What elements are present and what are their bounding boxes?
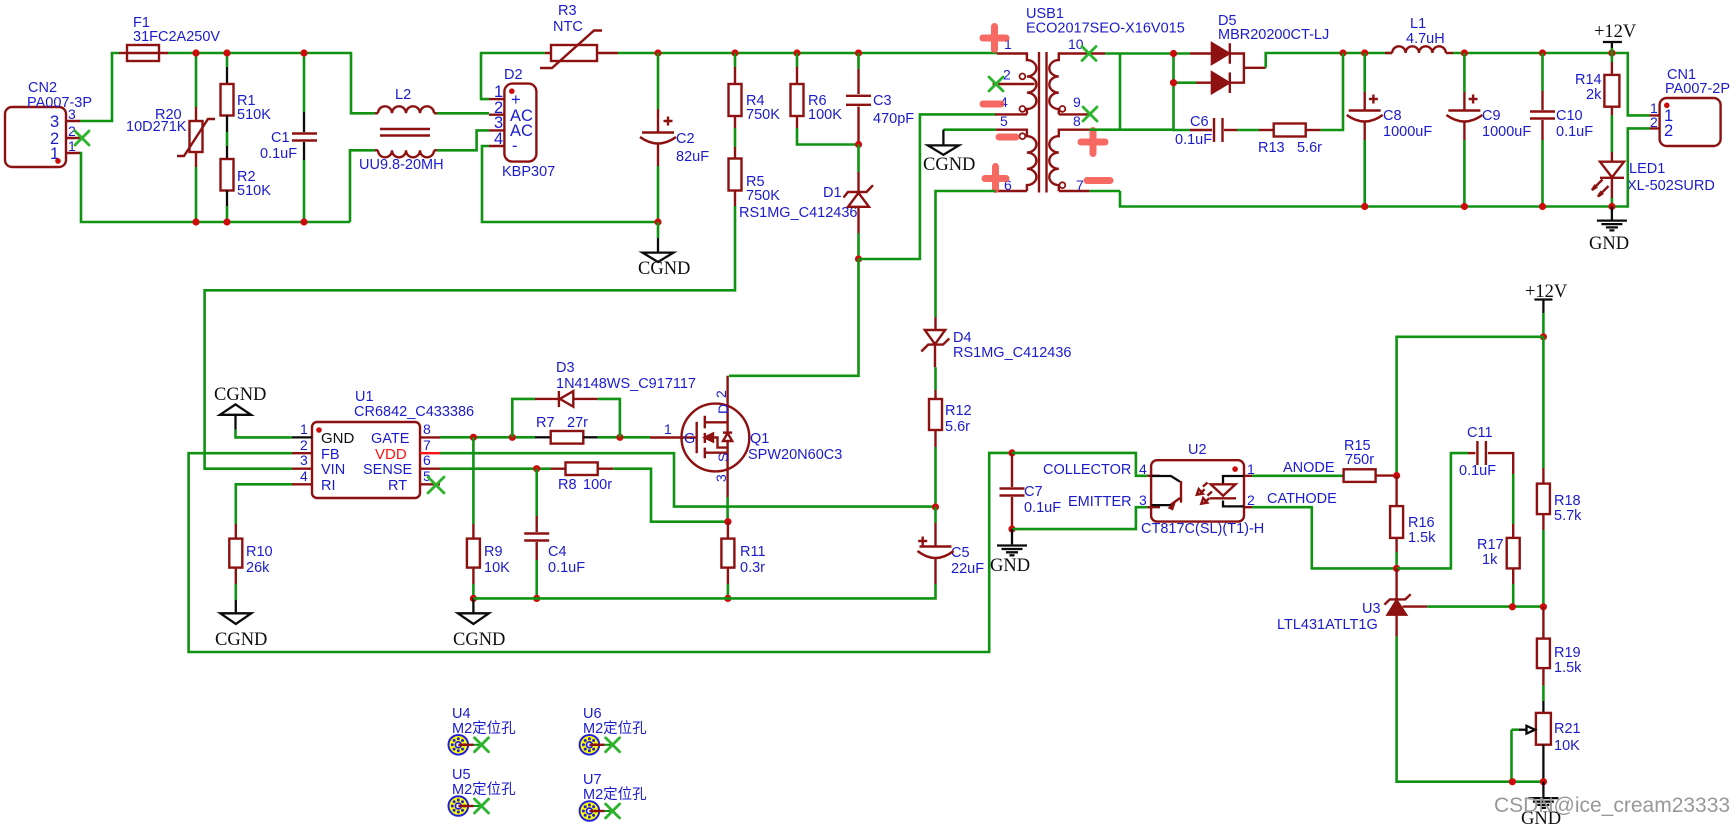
svg-text:COLLECTOR: COLLECTOR — [1043, 462, 1131, 478]
svg-text:9: 9 — [1073, 94, 1081, 110]
svg-text:750K: 750K — [746, 107, 780, 123]
svg-text:C11: C11 — [1467, 425, 1493, 441]
wire D5 out to +12V rail — [1266, 53, 1393, 68]
resistor R6 — [791, 53, 843, 128]
svg-text:7: 7 — [423, 437, 431, 453]
resistor R7 — [535, 415, 598, 444]
wire L2 to D2 pin3 — [437, 130, 489, 150]
common mode choke L2 — [359, 87, 444, 173]
resistor R17 — [1477, 524, 1520, 607]
svg-text:10D271K: 10D271K — [126, 119, 187, 135]
svg-text:0.1uF: 0.1uF — [1459, 463, 1496, 479]
capacitor C10 — [1530, 53, 1593, 207]
svg-text:R10: R10 — [246, 544, 273, 560]
svg-text:CGND: CGND — [453, 630, 505, 650]
junction (727.9,521.7) — [724, 518, 731, 525]
svg-text:1: 1 — [300, 421, 308, 437]
svg-text:C8: C8 — [1383, 108, 1402, 124]
junction (658,53) — [654, 49, 661, 56]
junction (319,430) — [316, 427, 322, 433]
light arrows — [1197, 483, 1212, 504]
output GND rail — [1120, 128, 1650, 206]
svg-text:3: 3 — [713, 474, 729, 482]
svg-text:C1: C1 — [271, 130, 290, 146]
svg-text:31FC2A250V: 31FC2A250V — [133, 29, 220, 45]
svg-text:ANODE: ANODE — [1283, 460, 1335, 476]
svg-text:4: 4 — [300, 468, 308, 484]
junction (797,53) — [793, 49, 800, 56]
svg-text:RT: RT — [388, 478, 407, 494]
mounting hole U6 — [580, 706, 648, 755]
junction (1364.7,206.5) — [1361, 203, 1368, 210]
junction (1396.6,475.6) — [1393, 472, 1400, 479]
svg-text:100K: 100K — [808, 107, 842, 123]
secondary winding pins 8-7 — [1049, 130, 1089, 191]
svg-text:L2: L2 — [395, 87, 411, 103]
svg-text:R12: R12 — [945, 403, 972, 419]
wire VDD row — [440, 453, 936, 506]
svg-text:R8: R8 — [558, 477, 577, 493]
svg-text:10K: 10K — [1554, 738, 1580, 754]
ground GND (regulator) — [1521, 782, 1561, 829]
svg-text:3: 3 — [68, 106, 76, 122]
polarity annotation - pin4 — [983, 101, 1001, 108]
junction (1512.4,781.7) — [1509, 778, 1516, 785]
svg-text:0.1uF: 0.1uF — [1556, 124, 1593, 140]
phase dots — [1020, 74, 1026, 80]
wire D1 junction down to Q1 drain — [729, 259, 859, 376]
lower primary winding pins 5-6 — [996, 130, 1037, 191]
wire CN2 pin1 to bottom rail — [80, 153, 350, 222]
junction (727.9,598.4) — [724, 595, 731, 602]
wire R16 node to C11 — [1397, 453, 1468, 568]
capacitor C7 — [1000, 449, 1062, 532]
svg-text:ECO2017SEO-X16V015: ECO2017SEO-X16V015 — [1026, 21, 1185, 37]
svg-text:CN2: CN2 — [28, 80, 57, 96]
svg-text:R13: R13 — [1258, 140, 1285, 156]
svg-text:RS1MG_C412436: RS1MG_C412436 — [953, 345, 1072, 361]
resistor R18 — [1537, 337, 1582, 607]
svg-text:R14: R14 — [1575, 72, 1602, 88]
svg-text:U7: U7 — [583, 772, 602, 788]
mounting hole U5 — [449, 767, 517, 816]
junction (658,222) — [654, 218, 661, 225]
wire pin5 to CGND — [943, 128, 995, 131]
svg-text:10K: 10K — [484, 560, 510, 576]
wire CN2 pin3 to F1 — [80, 53, 119, 121]
wire F1 to rail / L2 — [168, 53, 375, 113]
svg-text:XL-502SURD: XL-502SURD — [1627, 178, 1715, 194]
svg-text:C2: C2 — [676, 131, 695, 147]
svg-text:U4: U4 — [452, 706, 471, 722]
svg-text:0.3r: 0.3r — [740, 560, 765, 576]
svg-text:4.7uH: 4.7uH — [1406, 31, 1445, 47]
svg-text:R21: R21 — [1554, 721, 1581, 737]
secondary winding pins 10-9 — [1049, 54, 1105, 115]
svg-text:27r: 27r — [567, 415, 588, 431]
svg-text:5.6r: 5.6r — [1297, 140, 1322, 156]
capacitor C6 — [1175, 114, 1237, 148]
svg-text:R7: R7 — [536, 415, 555, 431]
diode D3 — [512, 360, 696, 437]
svg-text:M2定位孔: M2定位孔 — [583, 786, 647, 803]
junction (227,53) — [223, 49, 230, 56]
no-connect X on CN2 pin2 — [75, 131, 89, 145]
wire C7 to U2 collector — [1012, 453, 1147, 476]
wire C7 to U2 emitter — [1012, 507, 1147, 529]
wire R6 to C3/D1 junction — [797, 128, 859, 145]
mounting hole U4 — [449, 706, 517, 755]
junction (1235.1,469.1) — [1232, 466, 1238, 472]
svg-text:26k: 26k — [246, 560, 270, 576]
svg-text:1k: 1k — [1482, 552, 1498, 568]
svg-text:FB: FB — [321, 447, 340, 463]
svg-text:6: 6 — [423, 452, 431, 468]
diode D4 (zener) — [921, 317, 1071, 390]
svg-text:R19: R19 — [1554, 645, 1581, 661]
svg-text:L1: L1 — [1410, 16, 1426, 32]
wire GATE row — [440, 436, 650, 439]
wire CGND mid rail — [473, 584, 935, 598]
svg-text:4: 4 — [494, 130, 503, 148]
potentiometer R21 — [1512, 701, 1581, 782]
no-connect X U1 pin5 — [428, 477, 444, 493]
junction (58,161) — [55, 158, 61, 164]
junction (935.5,507) — [932, 503, 939, 510]
svg-text:3: 3 — [1139, 492, 1147, 508]
svg-text:NTC: NTC — [553, 19, 583, 35]
svg-text:D: D — [715, 404, 731, 414]
polarity annotation + pin6 — [985, 167, 1006, 190]
junction (227,222) — [223, 218, 230, 225]
svg-text:3: 3 — [300, 452, 308, 468]
svg-text:2: 2 — [1003, 67, 1011, 83]
junction (1173.5,82.7) — [1170, 79, 1177, 86]
mounting hole U7 — [580, 772, 648, 821]
svg-text:D3: D3 — [556, 360, 575, 376]
polarity annotation + pin8 — [1081, 131, 1105, 154]
svg-text:CATHODE: CATHODE — [1267, 491, 1337, 507]
svg-text:2: 2 — [1247, 492, 1255, 508]
svg-text:LTL431ATLT1G: LTL431ATLT1G — [1277, 617, 1378, 633]
svg-text:R11: R11 — [740, 544, 766, 560]
ground CGND (C2) — [638, 222, 690, 279]
junction (1611.9,53) — [1608, 49, 1615, 56]
ground CGND (U1 pin1, flipped) — [214, 385, 292, 437]
svg-text:R16: R16 — [1408, 515, 1435, 531]
svg-text:C7: C7 — [1024, 484, 1043, 500]
svg-text:1: 1 — [664, 421, 672, 437]
varistor R20 — [126, 53, 215, 222]
junction (1396.6,568.4) — [1393, 565, 1400, 572]
svg-text:0.1uF: 0.1uF — [548, 560, 585, 576]
junction (1666.8,105.3) — [1664, 103, 1670, 109]
svg-text:KBP307: KBP307 — [502, 164, 555, 180]
svg-text:5.6r: 5.6r — [945, 419, 970, 435]
svg-text:8: 8 — [1073, 113, 1081, 129]
wire C6/R13 row — [1174, 53, 1344, 130]
wire L2 to D2 pin2 — [437, 112, 489, 115]
svg-text:PA007-2P: PA007-2P — [1665, 81, 1730, 97]
svg-text:0.1uF: 0.1uF — [1024, 500, 1061, 516]
capacitor C1 — [260, 53, 317, 222]
svg-text:C5: C5 — [951, 545, 970, 561]
svg-text:U3: U3 — [1362, 601, 1381, 617]
junction (858.5,259) — [855, 255, 862, 262]
resistor R2 — [221, 146, 272, 222]
junction (304,222) — [300, 218, 307, 225]
shunt reference U3 TL431 — [1277, 568, 1543, 781]
svg-text:U6: U6 — [583, 706, 602, 722]
wire L1 to +12V rail — [1453, 53, 1650, 115]
svg-text:RS1MG_C412436: RS1MG_C412436 — [739, 205, 858, 221]
wire RI to R10 — [236, 484, 292, 524]
svg-text:82uF: 82uF — [676, 149, 709, 165]
svg-text:C4: C4 — [548, 544, 567, 560]
wire FB long loop to optocoupler — [189, 453, 1012, 652]
junction (511.8,91.2) — [509, 88, 515, 94]
ground CGND (R10) — [215, 600, 267, 650]
resistor R10 — [229, 524, 272, 600]
svg-text:4: 4 — [1139, 461, 1147, 477]
svg-text:M2定位孔: M2定位孔 — [452, 781, 516, 798]
svg-text:3: 3 — [50, 113, 59, 131]
wire R5 to U1 VIN (long HV startup wire) — [205, 206, 735, 469]
svg-text:GND: GND — [321, 430, 355, 447]
svg-text:1.5k: 1.5k — [1554, 660, 1582, 676]
svg-text:CR6842_C433386: CR6842_C433386 — [354, 404, 474, 420]
junction (536.7,598.4) — [533, 595, 540, 602]
svg-text:22uF: 22uF — [951, 561, 984, 577]
junction (473.4,598.4) — [470, 595, 477, 602]
junction (304,53) — [300, 49, 307, 56]
svg-text:+12V: +12V — [1594, 22, 1637, 42]
polarity annotation - pin5 — [999, 134, 1016, 141]
resistor R12 — [929, 390, 972, 507]
svg-text:VDD: VDD — [375, 446, 407, 463]
svg-text:CGND: CGND — [214, 385, 266, 405]
svg-text:MBR20200CT-LJ: MBR20200CT-LJ — [1218, 27, 1329, 43]
resistor R14 — [1575, 53, 1619, 152]
wire pin7 — [1089, 190, 1120, 193]
ground GND (C7) — [990, 529, 1030, 576]
svg-text:C3: C3 — [873, 93, 892, 109]
polarity annotation - pin7 — [1087, 177, 1110, 184]
junction (1611.9,206.5) — [1608, 203, 1615, 210]
connector CN2 — [5, 80, 92, 167]
svg-text:RI: RI — [321, 478, 336, 494]
svg-text:510K: 510K — [237, 107, 271, 123]
resistor R19 — [1537, 607, 1582, 701]
junction (1464.4,53) — [1461, 49, 1468, 56]
no-connect X pin2 — [989, 77, 1003, 91]
svg-text:C9: C9 — [1482, 108, 1501, 124]
wire gate junction down to R9 — [472, 437, 475, 524]
resistor R4 — [729, 53, 781, 128]
svg-text:D4: D4 — [953, 330, 972, 346]
svg-text:750r: 750r — [1345, 452, 1374, 468]
wire R3 to rail junction — [618, 52, 997, 55]
svg-text:-: - — [512, 137, 518, 155]
svg-text:1N4148WS_C917117: 1N4148WS_C917117 — [556, 376, 696, 392]
resistor R11 — [721, 522, 765, 599]
wire Q1 source — [726, 497, 729, 522]
svg-text:D1: D1 — [823, 185, 842, 201]
capacitor C9 (electrolytic) — [1446, 53, 1531, 207]
svg-text:CGND: CGND — [215, 630, 267, 650]
svg-text:5: 5 — [1000, 113, 1008, 129]
svg-text:SENSE: SENSE — [363, 462, 412, 478]
junction (196,222) — [192, 218, 199, 225]
junction (1543.4,606.8) — [1540, 603, 1547, 610]
LED LED1 — [1592, 152, 1715, 207]
capacitor C3 — [846, 53, 914, 145]
svg-text:M2定位孔: M2定位孔 — [583, 720, 647, 737]
svg-text:510K: 510K — [237, 183, 271, 199]
svg-text:D2: D2 — [504, 67, 523, 83]
svg-text:470pF: 470pF — [873, 111, 914, 127]
resistor R8 — [551, 462, 728, 521]
svg-text:VIN: VIN — [321, 462, 345, 478]
svg-text:GND: GND — [990, 556, 1030, 576]
svg-text:M2定位孔: M2定位孔 — [452, 720, 516, 737]
no-connect X pin10 — [1082, 47, 1096, 61]
svg-text:GND: GND — [1589, 234, 1629, 254]
LED inside — [1223, 476, 1244, 484]
svg-text:5.7k: 5.7k — [1554, 508, 1582, 524]
svg-text:S: S — [715, 453, 731, 462]
ground CGND (primary return) — [923, 130, 975, 175]
svg-text:R3: R3 — [558, 3, 577, 19]
primary winding pins 1-2-4 — [993, 54, 1037, 115]
svg-text:8: 8 — [423, 421, 431, 437]
svg-text:C10: C10 — [1556, 108, 1583, 124]
polarity annotation + pin1 — [983, 27, 1006, 50]
svg-text:R9: R9 — [484, 544, 503, 560]
wire D1 to transformer pin4 — [859, 114, 996, 259]
junction (1464.4,206.5) — [1461, 203, 1468, 210]
svg-text:LED1: LED1 — [1629, 161, 1665, 177]
svg-text:U5: U5 — [452, 767, 471, 783]
resistor R9 — [467, 524, 510, 598]
wire L2 bottom to rail — [350, 150, 375, 222]
svg-text:2k: 2k — [1586, 87, 1602, 103]
svg-text:10: 10 — [1068, 36, 1084, 52]
junction (1543.4,781.7) — [1540, 778, 1547, 785]
svg-text:CT817C(SL)(T1)-H: CT817C(SL)(T1)-H — [1141, 521, 1264, 537]
dual diode D5 MBR20200CT-LJ — [1190, 13, 1329, 93]
junction (512.3,437.3) — [509, 434, 516, 441]
svg-text:750K: 750K — [746, 188, 780, 204]
junction (473.4,437.3) — [470, 434, 477, 441]
resistor R16 — [1390, 476, 1436, 569]
junction (1012,452.9) — [1008, 449, 1015, 456]
svg-text:2: 2 — [713, 390, 729, 398]
phototransistor — [1152, 476, 1181, 482]
resistor R5 — [729, 147, 781, 206]
svg-text:0.1uF: 0.1uF — [1175, 132, 1212, 148]
svg-text:R17: R17 — [1477, 537, 1504, 553]
core — [1039, 52, 1047, 193]
wire pin6 down to D4 — [936, 191, 996, 317]
thermistor R3 NTC — [540, 3, 618, 68]
svg-text:R18: R18 — [1554, 493, 1581, 509]
diode D1 (zener) — [739, 145, 873, 260]
resistor R13 — [1258, 124, 1322, 157]
wire pin10/pin8 to D5 — [1089, 54, 1196, 130]
svg-text:1.5k: 1.5k — [1408, 530, 1436, 546]
wire R4-R5 — [734, 128, 737, 147]
svg-text:7: 7 — [1076, 177, 1084, 193]
svg-text:Q1: Q1 — [750, 431, 769, 447]
capacitor C5 (electrolytic) — [918, 507, 985, 584]
svg-text:2: 2 — [1650, 114, 1658, 130]
svg-text:PA007-3P: PA007-3P — [27, 95, 92, 111]
svg-text:G: G — [684, 431, 695, 447]
svg-text:EMITTER: EMITTER — [1068, 494, 1132, 510]
svg-text:SPW20N60C3: SPW20N60C3 — [748, 447, 842, 463]
ground GND (output) — [1589, 207, 1629, 255]
svg-text:CGND: CGND — [638, 259, 690, 279]
svg-text:UU9.8-20MH: UU9.8-20MH — [359, 157, 444, 173]
IC U1 CR6842 — [292, 389, 474, 498]
wire ANODE row — [1252, 474, 1344, 477]
junction (858.5,53) — [855, 49, 862, 56]
svg-text:GATE: GATE — [371, 431, 410, 447]
wire D2 pin1 up to NTC row — [481, 53, 545, 99]
junction (619.9,437.3) — [616, 434, 623, 441]
svg-text:CGND: CGND — [923, 155, 975, 175]
wire SENSE row — [440, 467, 551, 470]
svg-text:U2: U2 — [1188, 442, 1207, 458]
junction (858.5,144.5) — [855, 141, 862, 148]
svg-text:CSDN@ice_cream23333: CSDN@ice_cream23333 — [1494, 794, 1730, 817]
junction (1512.4,606.8) — [1509, 603, 1516, 610]
svg-text:1000uF: 1000uF — [1383, 124, 1432, 140]
svg-text:U1: U1 — [355, 389, 374, 405]
optocoupler U2 — [1043, 442, 1264, 537]
capacitor C4 — [524, 469, 585, 599]
power +12V (feedback) — [1525, 282, 1568, 337]
wire CATHODE row — [1252, 507, 1397, 568]
capacitor C11 — [1459, 425, 1513, 524]
connector CN1 — [1650, 67, 1731, 146]
inductor L1 — [1385, 16, 1453, 53]
capacitor C2 (electrolytic) — [640, 53, 709, 222]
wire +12V to R15/R16 node — [1397, 337, 1544, 476]
wire D2 pin4 down to CGND rail — [482, 146, 658, 222]
svg-text:0.1uF: 0.1uF — [260, 146, 297, 162]
no-connect X pin9 — [1083, 107, 1097, 121]
junction (1543.4,336.8) — [1540, 333, 1547, 340]
junction (1343,53) — [1339, 49, 1346, 56]
junction (1173.5,53.5) — [1170, 50, 1177, 57]
wire R1-R2 — [226, 132, 229, 146]
ground CGND (R9) — [453, 598, 505, 650]
MOSFET Q1 — [650, 376, 842, 497]
svg-text:5: 5 — [423, 468, 431, 484]
power +12V (output) — [1594, 22, 1637, 53]
capacitor C8 (electrolytic) — [1347, 53, 1433, 207]
junction (1542.5,53) — [1539, 49, 1546, 56]
svg-text:2: 2 — [1664, 122, 1673, 140]
svg-text:1000uF: 1000uF — [1482, 124, 1531, 140]
fuse F1 — [119, 15, 220, 61]
junction (1012,529.1) — [1008, 526, 1015, 533]
junction (1542.5,206.5) — [1539, 203, 1546, 210]
resistor R1 — [221, 53, 272, 132]
junction dots AC rails — [192, 49, 199, 56]
